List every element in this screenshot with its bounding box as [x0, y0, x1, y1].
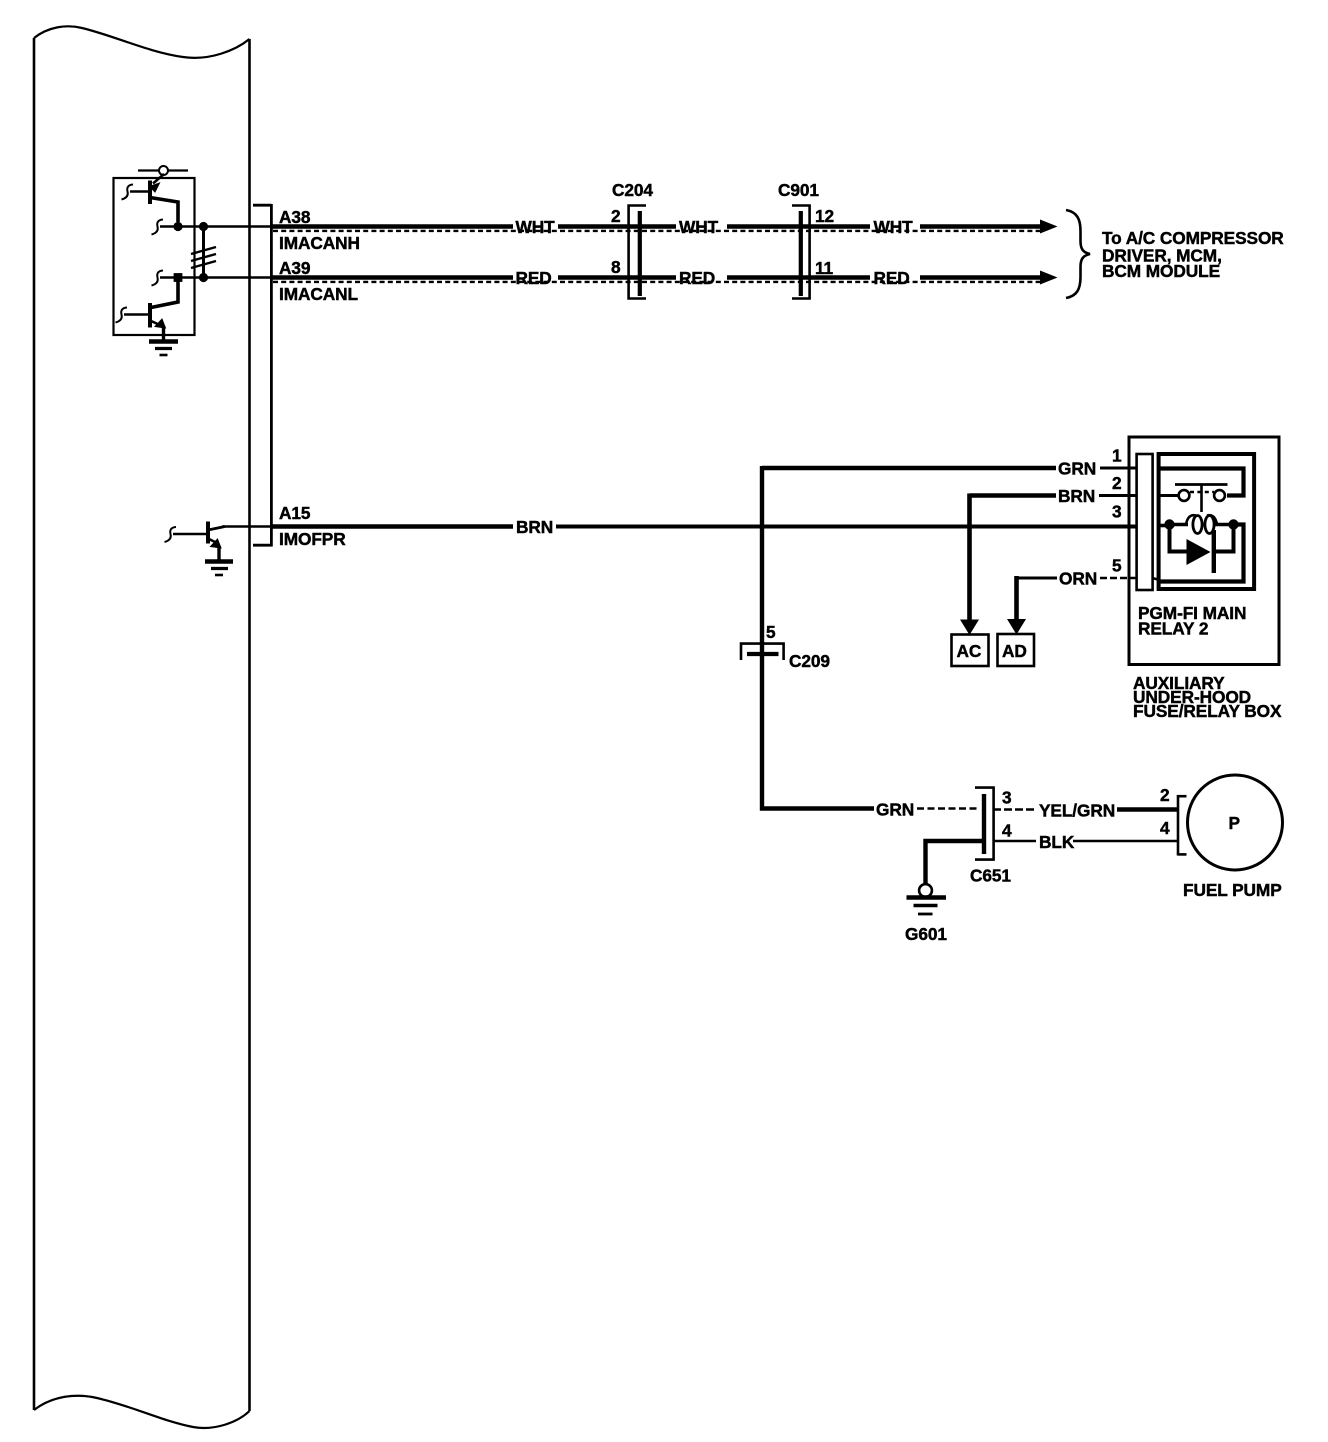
- svg-text:FUSE/RELAY BOX: FUSE/RELAY BOX: [1133, 701, 1282, 721]
- wire A38 arrow to A/C compressor driver: [920, 220, 1058, 234]
- junction Q2 collector / A39 (square node): [174, 273, 183, 282]
- node A39 internal wire: [152, 271, 273, 286]
- svg-text:RED: RED: [516, 268, 552, 288]
- svg-text:BLK: BLK: [1039, 832, 1075, 852]
- ECM/PCM module band right edge: [248, 39, 251, 1411]
- svg-text:5: 5: [766, 622, 776, 642]
- wire A39 segment ECM to RED label: [272, 275, 513, 279]
- wire A38 segment ECM to WHT label: [272, 224, 513, 228]
- relay internal wire pin1 to switch contact: [1160, 469, 1244, 496]
- svg-text:4: 4: [1160, 818, 1170, 838]
- svg-text:GRN: GRN: [1058, 459, 1096, 479]
- svg-text:IMACANH: IMACANH: [279, 233, 360, 253]
- svg-text:P: P: [1229, 813, 1240, 833]
- svg-text:G601: G601: [905, 924, 947, 944]
- svg-text:5: 5: [1112, 556, 1122, 576]
- svg-text:12: 12: [815, 206, 834, 226]
- svg-text:C651: C651: [970, 866, 1011, 886]
- wire BRN vertical drop to connector AC: [960, 494, 979, 636]
- svg-text:2: 2: [611, 206, 621, 226]
- power terminal: [138, 166, 188, 175]
- wire A39 arrow to A/C compressor driver: [920, 271, 1058, 285]
- wire A38 segment through C204: [558, 224, 676, 228]
- AUXILIARY UNDER-HOOD FUSE/RELAY BOX label: [1133, 673, 1282, 721]
- svg-text:BCM MODULE: BCM MODULE: [1102, 261, 1220, 281]
- wire A15 segment ECM to BRN label: [272, 524, 513, 528]
- svg-text:AD: AD: [1002, 641, 1027, 661]
- connector C204: [629, 206, 646, 299]
- svg-text:A15: A15: [279, 503, 311, 523]
- svg-text:2: 2: [1112, 473, 1122, 493]
- svg-text:11: 11: [815, 258, 834, 278]
- svg-text:GRN: GRN: [876, 800, 914, 820]
- destination text: To A/C COMPRESSOR DRIVER, MCM, BCM MODULE: [1102, 228, 1284, 281]
- auxiliary under-hood fuse/relay box outline: [1129, 437, 1279, 665]
- svg-text:ORN: ORN: [1059, 569, 1097, 589]
- svg-text:BRN: BRN: [1058, 486, 1095, 506]
- wire GRN stub to relay pin 1: [1100, 467, 1137, 470]
- ECM/PCM module band left edge: [33, 38, 36, 1410]
- wire ORN stub to relay pin 5: [1100, 577, 1137, 580]
- transistor Q3 (IMOFPR driver): [165, 522, 226, 561]
- junction Q1 emitter / A38: [173, 222, 182, 231]
- wire A38 segment through C901: [727, 224, 870, 228]
- svg-text:RED: RED: [874, 268, 910, 288]
- junction relay coil right: [1228, 519, 1238, 529]
- CAN driver circuit box: [114, 178, 195, 335]
- wire GRN vertical trunk through C209: [762, 466, 874, 809]
- junction relay coil left: [1164, 519, 1174, 529]
- relay diode D1: [1187, 530, 1214, 573]
- wire BLK ground side of C651: [926, 841, 985, 884]
- ECM/PCM module band torn bottom edge: [34, 1396, 250, 1428]
- svg-text:AC: AC: [957, 641, 982, 661]
- ground G601: [907, 884, 947, 914]
- connector C651: [975, 788, 994, 860]
- svg-text:IMOFPR: IMOFPR: [279, 529, 346, 549]
- wire A39 segment through C901: [727, 275, 870, 279]
- wire GRN dashed segment to C651: [917, 807, 979, 809]
- relay internal wire pin3 to coil: [1160, 524, 1172, 528]
- relay internal wire pin2 to switch: [1160, 494, 1179, 497]
- relay coil L1: [1170, 515, 1234, 533]
- wire GRN relay pin 1 horizontal: [762, 466, 1056, 471]
- svg-text:C901: C901: [778, 180, 819, 200]
- ECM connector bracket: [253, 204, 271, 547]
- wire ORN relay pin 5 horizontal: [1017, 577, 1058, 580]
- transistor Q1: [122, 174, 179, 222]
- svg-text:IMACANL: IMACANL: [279, 284, 359, 304]
- svg-text:1: 1: [1112, 446, 1122, 466]
- relay internal wire coil to pin5 bottom bar: [1160, 525, 1244, 582]
- ECM/PCM module band torn top edge: [34, 26, 250, 58]
- relay connector pin bar: [1137, 454, 1153, 590]
- svg-text:A38: A38: [279, 207, 311, 227]
- svg-text:C209: C209: [789, 651, 830, 671]
- svg-text:RELAY 2: RELAY 2: [1138, 619, 1208, 639]
- relay switch fixed contact left: [1179, 490, 1190, 501]
- relay diode loop left: [1170, 525, 1188, 552]
- svg-text:3: 3: [1002, 788, 1012, 808]
- fuel pump motor M1: [1188, 775, 1283, 870]
- connector AD box: [998, 634, 1035, 666]
- wire BLK to fuel pump pin 4: [1073, 840, 1178, 842]
- relay switch blade: [1175, 485, 1228, 513]
- brace to A/C compressor driver: [1066, 210, 1090, 298]
- svg-text:WHT: WHT: [874, 217, 914, 237]
- junction resistor top: [199, 222, 208, 231]
- svg-text:WHT: WHT: [679, 217, 719, 237]
- svg-text:A39: A39: [279, 258, 310, 278]
- fuel pump connector bracket: [1178, 795, 1187, 856]
- svg-text:YEL/GRN: YEL/GRN: [1039, 801, 1115, 821]
- PGM-FI MAIN RELAY 2 label: [1138, 603, 1246, 639]
- svg-text:8: 8: [611, 257, 621, 277]
- connector AC box: [952, 635, 989, 667]
- svg-text:3: 3: [1112, 502, 1122, 522]
- svg-text:WHT: WHT: [516, 217, 556, 237]
- wire ORN stub inside box to pin 5: [1152, 578, 1160, 580]
- wire BRN stub to relay pin 2: [1099, 494, 1137, 497]
- connector C901: [792, 206, 810, 299]
- wire A39 segment through C204: [558, 275, 676, 279]
- ground (Q3 emitter): [205, 562, 233, 576]
- wire BRN relay pin 2 horizontal: [970, 493, 1057, 497]
- node A38 internal wire: [152, 220, 273, 235]
- svg-text:C204: C204: [612, 180, 653, 200]
- resistor R1 (CAN termination): [191, 227, 216, 278]
- relay diode loop right: [1214, 525, 1234, 552]
- junction resistor bottom: [199, 273, 208, 282]
- PGM-FI main relay 2 box: [1159, 454, 1255, 589]
- connector C209: [741, 644, 784, 660]
- svg-text:4: 4: [1002, 821, 1012, 841]
- svg-text:RED: RED: [679, 268, 715, 288]
- wire YEL/GRN to fuel pump pin 2: [1117, 807, 1178, 811]
- wire A15 segment BRN label to relay pin 3: [556, 525, 1137, 529]
- wire A39 twisted-pair dashed line: [273, 281, 1041, 283]
- wire ORN vertical drop to connector AD: [1007, 576, 1026, 635]
- wire YEL/GRN thin segment from C651: [993, 808, 1036, 810]
- relay switch fixed contact right: [1214, 490, 1225, 501]
- svg-text:2: 2: [1160, 785, 1170, 805]
- ground (CAN driver): [149, 342, 178, 356]
- svg-text:FUEL PUMP: FUEL PUMP: [1183, 880, 1282, 900]
- transistor Q2: [116, 281, 179, 342]
- wire A38 twisted-pair dashed line: [273, 230, 1041, 232]
- wire BLK thin segment from C651: [993, 840, 1036, 842]
- node A15 internal wire: [222, 525, 272, 528]
- svg-text:BRN: BRN: [516, 517, 553, 537]
